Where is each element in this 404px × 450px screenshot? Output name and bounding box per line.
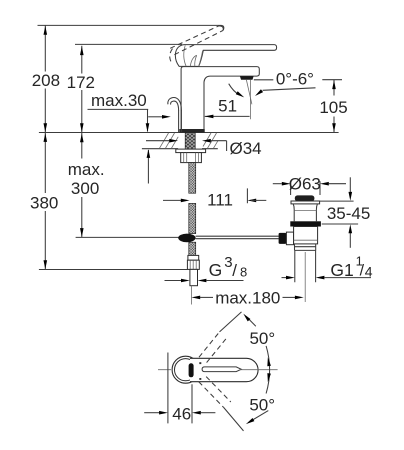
angle leader right bbox=[263, 88, 316, 91]
drain flange extension ticks bbox=[291, 181, 320, 195]
dimension 172/max300 vertical bbox=[81, 46, 83, 237]
dimension G1 1/4 arrows bbox=[282, 277, 287, 279]
dimension max.30 arrows bbox=[147, 109, 149, 131]
top view corner dots bbox=[199, 362, 201, 364]
tilted stream 6° bbox=[246, 80, 252, 104]
svg-text:0°-6°: 0°-6° bbox=[276, 69, 314, 88]
dashed lever swung down bbox=[199, 377, 231, 408]
svg-text:G: G bbox=[209, 260, 223, 280]
dimension 46 bbox=[168, 353, 192, 424]
svg-text:50°: 50° bbox=[249, 329, 275, 348]
svg-text:105: 105 bbox=[319, 98, 347, 117]
drain flange bbox=[291, 201, 320, 204]
dimension 35-45 bbox=[320, 201, 359, 224]
pop-up rod bbox=[196, 236, 279, 239]
mounting nut bbox=[181, 153, 202, 163]
svg-text:46: 46 bbox=[172, 404, 191, 423]
svg-text:50°: 50° bbox=[249, 395, 275, 414]
faucet body outline bbox=[181, 67, 259, 132]
top view lever bar bbox=[190, 358, 258, 381]
drain lower ring bbox=[295, 244, 316, 251]
svg-text:max.30: max.30 bbox=[91, 91, 147, 110]
handle base inner strokes bbox=[184, 45, 203, 66]
drain plug cap bbox=[295, 195, 315, 201]
svg-text:8: 8 bbox=[240, 265, 247, 280]
deck hatching bbox=[160, 133, 218, 148]
dimension 105 bbox=[333, 80, 335, 132]
dimension Ø34 leader bbox=[146, 140, 170, 142]
svg-text:35-45: 35-45 bbox=[327, 204, 370, 223]
svg-text:208: 208 bbox=[32, 71, 60, 90]
wire extension line top (208 ref) bbox=[38, 25, 224, 30]
svg-text:Ø63: Ø63 bbox=[289, 175, 321, 194]
top view cartridge pill bbox=[189, 363, 194, 377]
hose end collar bbox=[188, 255, 199, 260]
angle arc left bbox=[229, 84, 240, 95]
svg-text:300: 300 bbox=[71, 179, 99, 198]
washer bbox=[176, 149, 206, 153]
solid extension down bbox=[224, 408, 244, 431]
water stream line bbox=[249, 80, 251, 119]
dimension max.180 bbox=[191, 296, 200, 300]
svg-text:111: 111 bbox=[207, 191, 233, 210]
svg-text:G1: G1 bbox=[330, 260, 353, 280]
wire 380 bottom reference bbox=[39, 269, 187, 271]
pull rod bbox=[179, 110, 182, 132]
solid extension up bbox=[220, 312, 242, 332]
svg-text:/: / bbox=[232, 261, 237, 280]
drain body bbox=[294, 227, 318, 244]
G3/8 tube bbox=[190, 269, 198, 285]
deck section bottom lines bbox=[142, 148, 218, 150]
handle lever bar bbox=[175, 45, 276, 67]
svg-text:4: 4 bbox=[365, 264, 373, 280]
rod coupling nipple bbox=[279, 233, 287, 244]
tube axis bbox=[190, 286, 192, 305]
aerator bbox=[240, 76, 254, 80]
svg-text:max.: max. bbox=[68, 160, 105, 179]
svg-text:max.180: max.180 bbox=[215, 289, 280, 308]
top view body circle outer bbox=[172, 356, 199, 383]
top view body circle inner bbox=[175, 359, 197, 381]
drain left port bbox=[286, 232, 293, 245]
drain neck bbox=[293, 204, 317, 221]
rod clamp ball bbox=[178, 234, 195, 243]
svg-text:Ø34: Ø34 bbox=[230, 139, 262, 158]
dashed lever swung up bbox=[199, 332, 227, 363]
G3/8 nut bbox=[187, 260, 199, 269]
wire rod reference line bbox=[76, 236, 179, 238]
flexible hose middle bbox=[189, 203, 196, 233]
faucet base plate bbox=[179, 129, 204, 133]
label 50° bottom leader bbox=[251, 411, 269, 422]
svg-text:51: 51 bbox=[218, 96, 237, 115]
wire extension line (172 ref) bbox=[75, 43, 182, 45]
svg-text:380: 380 bbox=[30, 193, 58, 212]
dimension Ø63 bbox=[273, 183, 282, 185]
dimension 208/380 vertical bbox=[44, 25, 46, 269]
threaded shank below deck bbox=[185, 133, 195, 151]
drain tailpipe bbox=[295, 250, 316, 282]
handle raised dashed outline bbox=[170, 26, 223, 55]
top view handle slot bbox=[202, 367, 241, 372]
wire deck line bbox=[39, 132, 339, 134]
svg-text:172: 172 bbox=[67, 73, 95, 92]
swing arc bbox=[266, 346, 269, 394]
flexible hose lower bbox=[189, 242, 196, 255]
top view centerline bbox=[158, 369, 278, 371]
dimension 111 bbox=[163, 199, 186, 201]
label 50° top leader bbox=[247, 317, 256, 326]
tailpipe axis bbox=[304, 252, 306, 302]
dimension G3/8 arrows bbox=[165, 280, 182, 282]
drain gasket bbox=[290, 221, 321, 226]
flexible hose upper bbox=[189, 163, 196, 194]
